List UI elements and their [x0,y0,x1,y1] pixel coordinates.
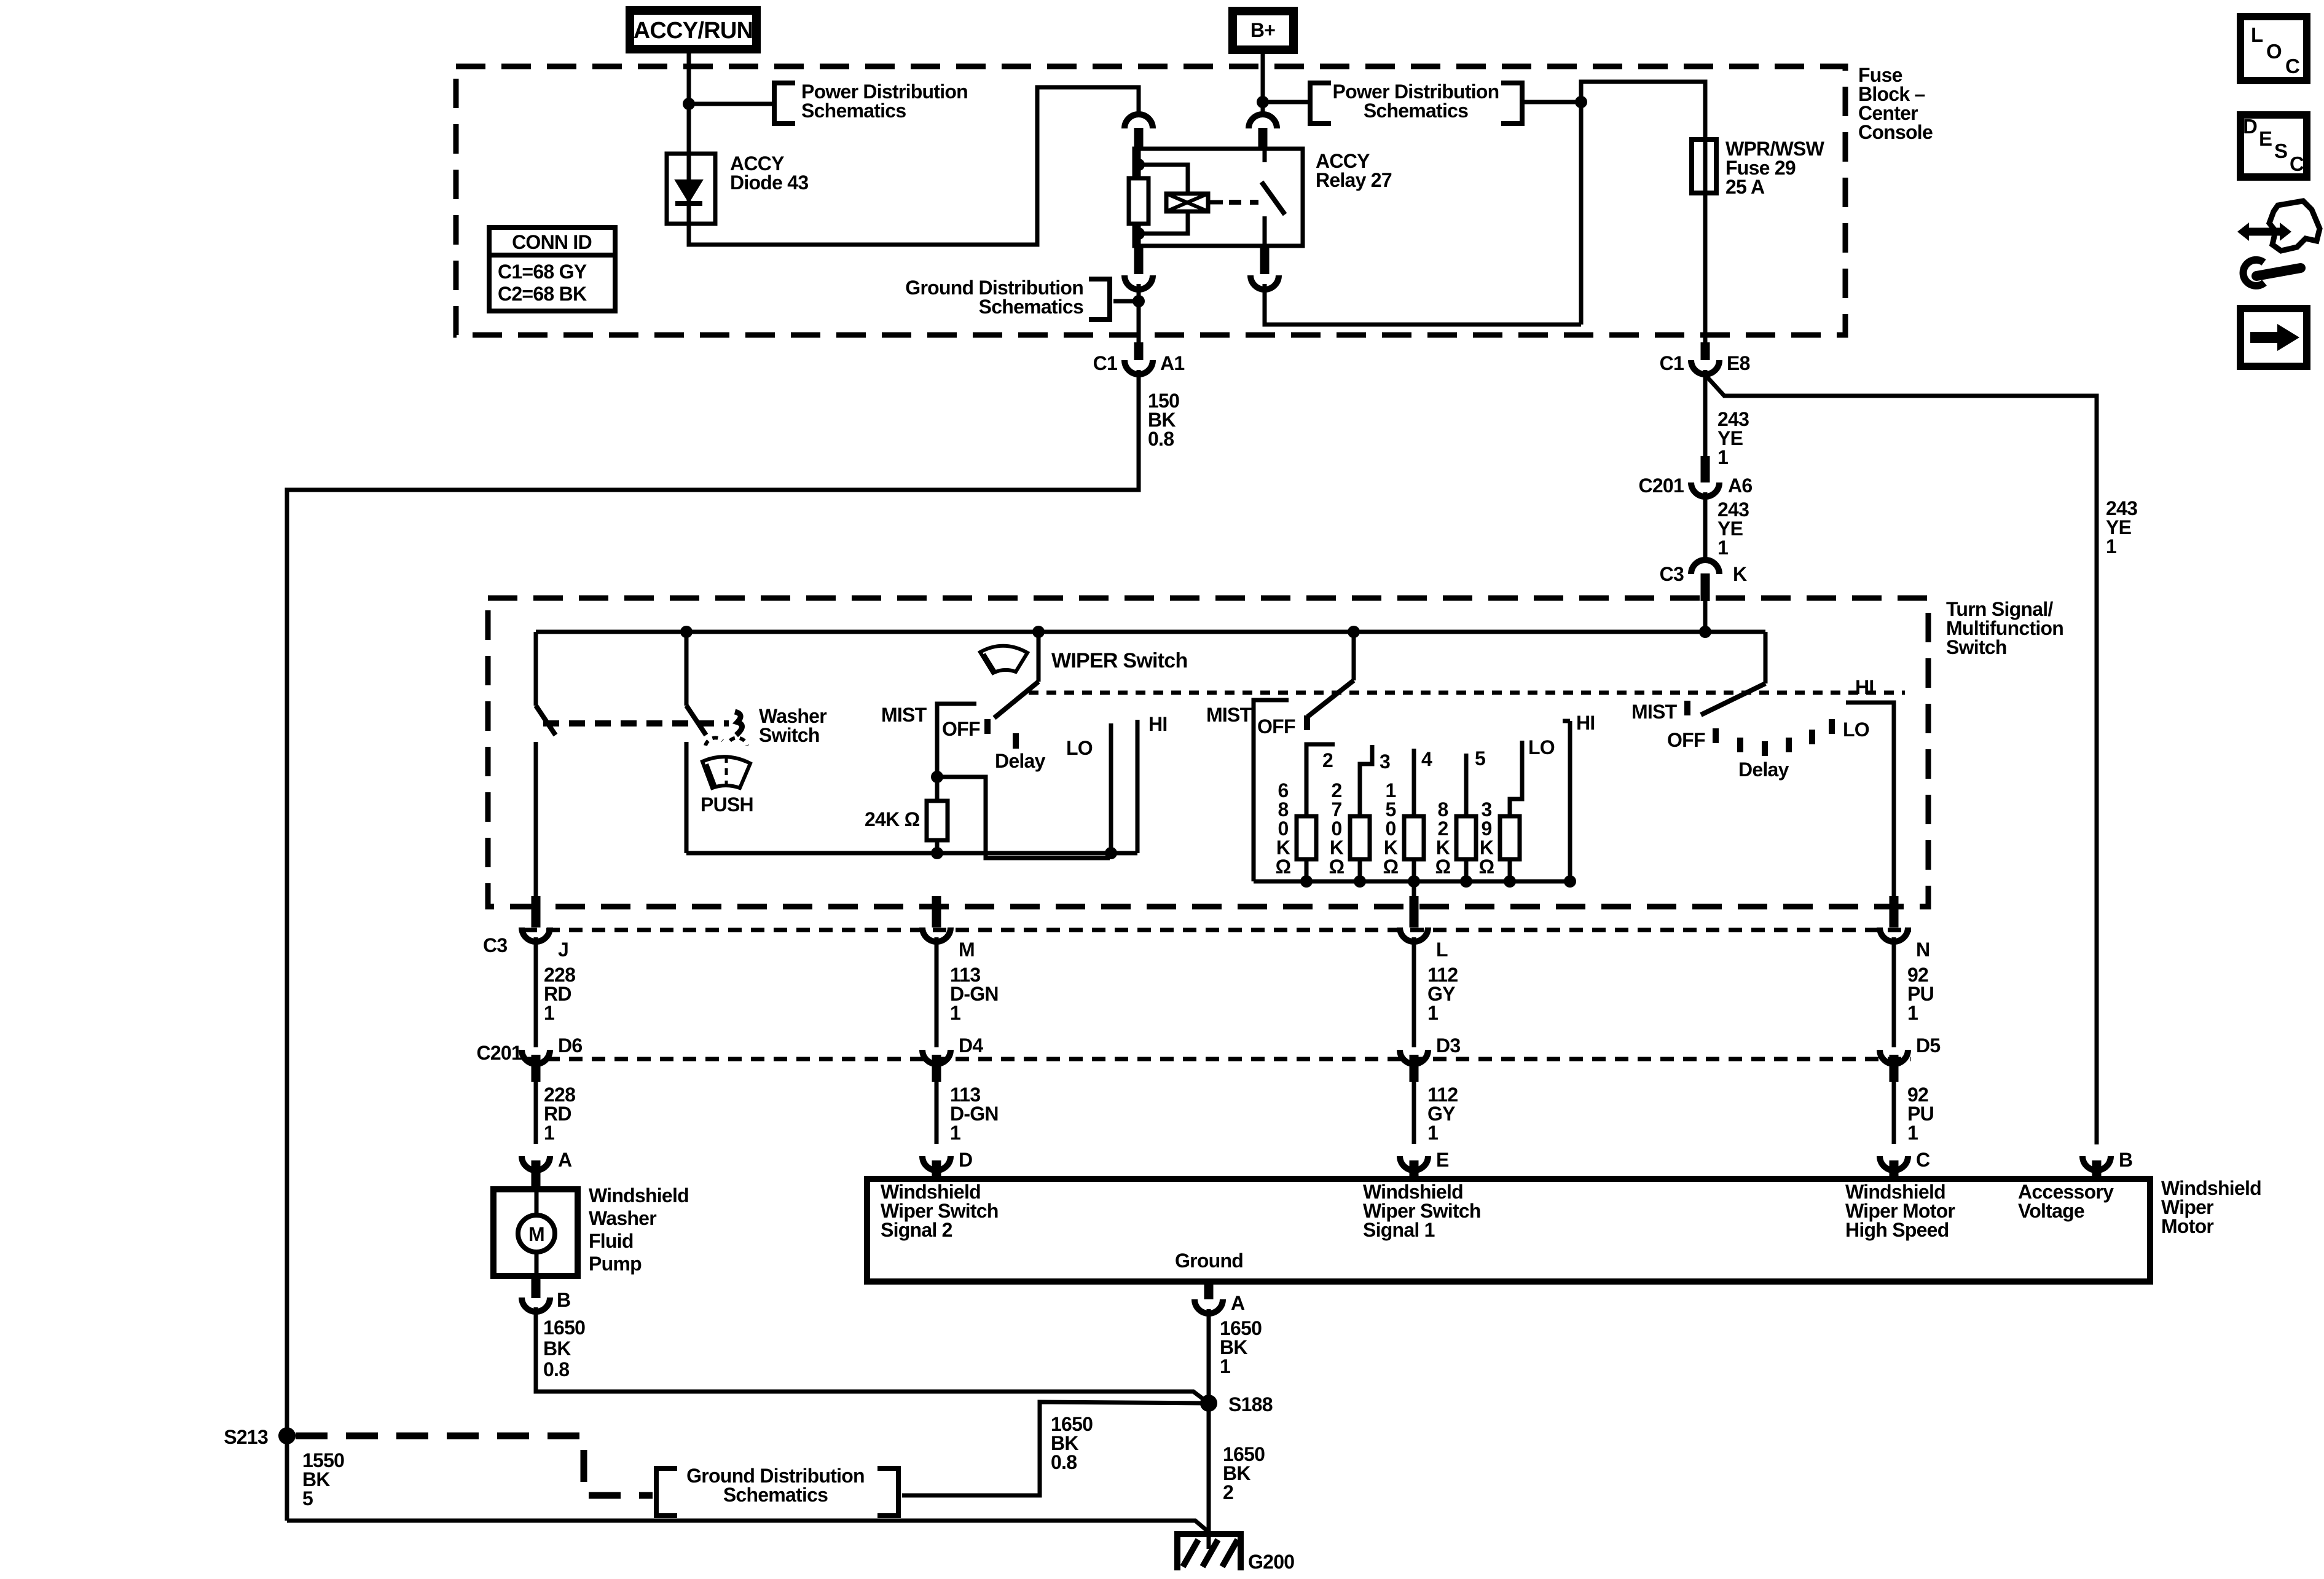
pin stub C201 D5 [1890,1055,1899,1082]
wire D3 down to device [1412,1082,1416,1144]
fuse block dashed outline [456,66,1845,335]
label Windshield Washer Fluid Pump [589,1184,689,1275]
node rail HI splice [1564,875,1576,888]
svg-text:E: E [2259,127,2272,150]
connector C3 N [1880,927,1908,942]
reference bracket Power Distribution left [774,83,795,124]
connector wiper motor ground A [1195,1299,1223,1313]
wire label 243 YE 1 right branch [2106,497,2137,557]
switch washer pole 1 [536,632,555,896]
wire fuse riser [1581,82,1705,325]
svg-text:0.8: 0.8 [543,1358,569,1380]
svg-text:D4: D4 [959,1034,983,1057]
svg-text:1: 1 [1907,1002,1918,1024]
wire to Ground Distribution reference [1113,299,1139,304]
pin stub C3 J [532,896,541,927]
svg-text:1: 1 [950,1002,960,1024]
svg-text:1: 1 [1427,1122,1438,1144]
svg-text:Fluid: Fluid [589,1230,634,1252]
switch wiper A lever [994,632,1038,718]
wire label 113 D-GN 1 lower [950,1084,999,1144]
connector washer pump B [522,1297,550,1312]
svg-text:ACCY/RUN: ACCY/RUN [634,18,753,44]
wire D4 down to device [935,1082,939,1144]
svg-text:1: 1 [544,1002,554,1024]
icon vehicle wrench [2237,201,2320,286]
motor windshield washer fluid pump [493,1186,578,1279]
connector wiper motor B [2083,1156,2111,1170]
pin stub wiper motor ground A [1204,1285,1214,1299]
pin stub relay coil bottom [1134,246,1144,274]
contact OFF switch A [984,719,991,734]
node splice on ACCY/RUN feed [683,98,695,110]
svg-text:5: 5 [1475,747,1485,770]
svg-text:M: M [528,1223,544,1245]
pin stub C1 E8 [1701,342,1710,360]
connector C1 E8 [1691,360,1719,374]
label Fuse Block Center Console [1858,64,1933,143]
node splice on B+ feed [1257,96,1269,108]
connector C3 K [1691,560,1719,574]
svg-text:CONN ID: CONN ID [512,231,592,253]
svg-text:B: B [2119,1149,2132,1171]
pin stub wiper motor [932,1160,941,1176]
wire bus to switch C pivot [1764,632,1768,683]
node rail splice x2213 [1354,875,1366,888]
svg-text:LO: LO [1528,736,1555,758]
connector row C201 dashed line [524,1057,1911,1061]
connector C201 A6 [1691,482,1719,497]
power symbol ACCY/RUN [630,10,756,49]
svg-text:HI: HI [1148,713,1168,735]
contact OFF switch B [1304,715,1310,730]
reference bracket Power Distribution B+ left [1310,83,1331,124]
svg-text:S188: S188 [1228,1393,1273,1416]
wire fuse to C1 E8 [1703,193,1708,342]
pin stub wiper motor [1410,1160,1419,1176]
connector C201 D5 [1880,1050,1908,1064]
pin stub C1 A1 [1134,342,1144,360]
wire label 1650 BK 0.8 branch [1051,1413,1093,1473]
connector C3 J [522,927,550,942]
wire pump B to S188 [536,1307,1209,1403]
pin stub relay contact top [1258,128,1268,149]
label Turn Signal Multifunction Switch [1946,598,2063,658]
svg-text:Relay 27: Relay 27 [1316,169,1392,191]
switch wiper B lever [1308,632,1354,717]
svg-text:C201: C201 [477,1042,522,1064]
svg-text:A: A [558,1149,572,1171]
svg-text:Voltage: Voltage [2018,1200,2084,1222]
svg-text:Ω: Ω [1383,856,1399,878]
svg-text:D3: D3 [1436,1034,1460,1057]
switch wiper C lever [1701,683,1765,715]
wire 243 YE 1 branch to wiper motor B [1705,375,2097,1144]
table CONN ID [489,227,615,311]
svg-text:C: C [1916,1149,1930,1171]
node rail splice x2126 [1300,875,1313,888]
wire label 1650 BK 1 [1220,1317,1262,1377]
pin stub C3 N [1890,896,1899,927]
svg-text:S: S [2274,140,2287,162]
contact LO switch B [1510,741,1522,816]
svg-text:4: 4 [1421,748,1432,770]
wire 150 BK 0.8 run to S213 [287,370,1139,1521]
node bus washer branch [680,626,693,638]
pin stub relay contact bottom [1260,246,1270,274]
node bus wiper switch B branch [1348,626,1360,638]
label Washer Switch [759,705,826,746]
connector device pin E [1400,1156,1428,1170]
svg-text:C2=68 BK: C2=68 BK [498,283,587,305]
icon forward arrow box [2240,309,2307,366]
svg-text:D: D [959,1149,972,1171]
contact MIST switch C [1684,701,1690,715]
wire switch A bottom rail [686,851,1137,856]
wire B+ feed down to relay contact [1261,54,1265,112]
connector relay coil pin bottom [1125,275,1153,289]
svg-text:D: D [2243,115,2257,138]
icon DESC box [2240,115,2307,177]
wire K into multifunction switch [1703,601,1708,632]
svg-text:Schematics: Schematics [723,1484,828,1506]
svg-text:Schematics: Schematics [801,100,906,122]
node bus K feed [1699,626,1711,638]
contact OFF switch C [1713,728,1719,743]
contact MIST switch A with 24K resistor [927,704,976,853]
contact HI switch C [1846,703,1894,896]
svg-text:High Speed: High Speed [1845,1219,1949,1241]
connector relay contact pin top [1249,114,1277,128]
contact HI switch B [1563,721,1570,881]
reference bracket ground distribution right [877,1468,898,1516]
wire L between rows [1412,937,1416,1047]
svg-text:B+: B+ [1250,19,1275,41]
node splice on fuse riser [1575,96,1587,108]
label Windshield Wiper Switch Signal 2 [881,1181,999,1241]
svg-text:HI: HI [1576,712,1595,734]
node LO rail splice [1105,847,1117,859]
wire label 112 GY 1 upper [1427,964,1458,1024]
wire relay output to fuse riser [1265,284,1581,325]
label Windshield Wiper Switch Signal 1 [1363,1181,1481,1241]
wire N between rows [1892,937,1896,1047]
pin stub C3 K [1701,573,1710,601]
wire to Power Distribution reference [689,102,772,106]
svg-text:A6: A6 [1728,474,1752,497]
windshield wiper motor box [867,1179,2150,1282]
svg-text:LO: LO [1843,719,1869,741]
pin stub wiper motor [1890,1160,1899,1176]
resistor R3 value 150KΩ [1383,779,1424,881]
svg-text:1: 1 [1427,1002,1438,1024]
svg-text:2: 2 [1223,1481,1233,1503]
svg-text:Signal 2: Signal 2 [881,1219,952,1241]
node rail splice x2301 [1408,875,1420,888]
wire S188 to ground distribution reference [902,1402,1209,1495]
svg-text:Ω: Ω [1329,856,1345,878]
reference bracket Power Distribution B+ right [1501,83,1522,124]
svg-text:3: 3 [1380,750,1390,773]
svg-text:25 A: 25 A [1725,176,1765,198]
svg-text:1: 1 [2106,535,2116,557]
svg-text:1650: 1650 [543,1317,585,1339]
washer switch linkage hook [735,712,742,735]
wire D6 down to device [534,1082,538,1144]
connector C1 A1 [1125,360,1153,374]
svg-text:Ω: Ω [1479,856,1494,878]
node relay coil top [1133,159,1145,171]
svg-text:OFF: OFF [942,718,980,740]
svg-text:K: K [1733,563,1747,585]
splice S213 [278,1427,296,1444]
node rail splice x2386 [1460,875,1472,888]
svg-text:B: B [557,1289,570,1311]
svg-text:C1=68 GY: C1=68 GY [498,261,587,283]
wire D5 down to device [1892,1082,1896,1144]
label Windshield Wiper Motor [2161,1177,2261,1237]
svg-text:Ω: Ω [1276,856,1291,878]
diode ACCY Diode 43 [667,154,715,224]
svg-text:Signal 1: Signal 1 [1363,1219,1435,1241]
connector device pin D [922,1156,951,1170]
wire bracket to fuse riser [1522,100,1581,104]
wire label 1650 BK 0.8 pump [543,1317,585,1380]
node 24K bottom splice [931,847,943,859]
splice S188 [1200,1395,1217,1412]
contact LO switch A [1109,723,1113,853]
pin stub washer pump B [532,1279,541,1298]
svg-text:MIST: MIST [1631,701,1678,723]
svg-text:Windshield: Windshield [589,1184,689,1207]
svg-text:1: 1 [544,1122,554,1144]
wire diode to relay coil pin [689,87,1139,245]
svg-text:5: 5 [302,1487,313,1510]
svg-text:Pump: Pump [589,1253,642,1275]
svg-text:1: 1 [1717,446,1728,468]
wire label 92 PU 1 upper [1907,964,1934,1024]
connector C3 L [1400,927,1428,942]
svg-text:D6: D6 [558,1034,582,1057]
washer switch linkage dashes [543,720,729,726]
label Ground Distribution Schematics bottom [686,1465,865,1506]
wire rail down to C3 L [1412,881,1416,896]
icon LOC box [2240,17,2307,81]
svg-text:Switch: Switch [759,724,820,746]
pin stub C201 D4 [932,1055,941,1082]
label ACCY Relay 27 [1316,150,1392,191]
label Windshield Wiper Motor High Speed [1845,1181,1955,1241]
pin stub C201 D3 [1410,1055,1419,1082]
icon washer push symbol [702,738,750,788]
svg-text:BK: BK [543,1337,571,1360]
contact 4 [1412,749,1416,816]
label Ground Distribution Schematics top [905,277,1083,318]
contact Delay arc switch C [1740,719,1832,756]
node relay coil bottom [1133,227,1145,240]
svg-text:OFF: OFF [1257,715,1295,738]
relay coil resistor branch [1129,149,1148,246]
pin stub relay coil top [1134,128,1144,149]
resistor R2 value 270KΩ [1329,779,1370,881]
wire switch feed bus [536,630,1765,634]
svg-text:L: L [2251,23,2263,46]
wire switch B bottom rail [1254,880,1570,884]
wiper switch inner dotted boundary [1029,691,1905,695]
svg-text:Ground: Ground [1175,1250,1243,1272]
wire label 1550 BK 5 [302,1449,344,1510]
relay coil winding symbol [1139,165,1258,234]
pin stub wiper motor B [2092,1160,2102,1176]
svg-text:Motor: Motor [2161,1215,2213,1237]
svg-text:PUSH: PUSH [701,793,753,816]
svg-text:1: 1 [1220,1355,1230,1377]
label Power Distribution Schematics left [801,81,968,122]
connector relay contact pin bottom [1250,275,1279,289]
svg-text:2: 2 [1322,749,1333,771]
label WPR/WSW Fuse 29 25 A [1725,138,1825,198]
resistor R4 value 82KΩ [1435,798,1476,881]
node bus wiper switch A branch [1032,626,1045,638]
node rail splice x2457 [1504,875,1516,888]
svg-text:MIST: MIST [1206,704,1252,726]
wire ACCY/RUN feed down to diode [687,52,691,154]
connector row C3 dashed line [524,928,1911,932]
relay ACCY Relay 27 box [1134,149,1303,246]
label Power Distribution Schematics right [1333,81,1499,122]
ground G200 [1174,1534,1244,1570]
contact 2 [1306,744,1335,816]
svg-text:Console: Console [1858,121,1933,143]
svg-text:24K Ω: 24K Ω [865,808,920,830]
connector relay coil pin top [1125,114,1153,128]
svg-text:Switch: Switch [1946,636,2007,658]
turn signal multifunction switch dashed outline [488,598,1928,907]
svg-text:C3: C3 [483,934,507,956]
svg-text:Diode 43: Diode 43 [730,171,808,194]
svg-text:A1: A1 [1160,352,1184,374]
wire S213 run to G200 [287,1521,1211,1534]
power symbol B+ [1233,11,1294,50]
svg-text:N: N [1916,939,1929,961]
svg-text:A: A [1231,1292,1245,1314]
wire relay coil to ground ref / C1 A1 [1137,284,1141,342]
contact MIST switch B [1254,700,1289,881]
svg-text:Delay: Delay [1738,758,1789,781]
fuse WPR/WSW Fuse 29 25A [1692,140,1716,193]
connector C201 D6 [522,1050,550,1064]
svg-text:D5: D5 [1916,1034,1940,1057]
svg-text:M: M [959,939,975,961]
wire label 112 GY 1 lower [1427,1084,1458,1144]
svg-text:LO: LO [1066,737,1093,759]
wire label 243 YE 1 upper [1717,408,1749,468]
switch washer pole 2 [686,632,706,853]
svg-text:J: J [558,939,568,961]
svg-text:Washer: Washer [589,1207,656,1229]
resistor R1 value 680KΩ [1276,779,1316,881]
svg-text:OFF: OFF [1667,729,1705,751]
wire A6 down to C3 K [1703,492,1708,559]
svg-text:Schematics: Schematics [1364,100,1468,122]
svg-text:E: E [1436,1149,1449,1171]
svg-text:1: 1 [1907,1122,1918,1144]
svg-text:C3: C3 [1660,563,1684,585]
wire dashed S213 to ground distribution reference [296,1436,653,1495]
connector C201 D3 [1400,1050,1428,1064]
svg-text:WIPER Switch: WIPER Switch [1051,649,1187,672]
node ground reference splice [1133,295,1145,307]
svg-text:1: 1 [950,1122,960,1144]
wire ground A to G200 [1207,1309,1211,1549]
svg-text:0.8: 0.8 [1051,1451,1077,1473]
contact Delay switch A [1013,733,1019,749]
svg-text:C201: C201 [1639,474,1684,497]
wire label 228 RD 1 upper [544,964,575,1024]
wire label 92 PU 1 lower [1907,1084,1934,1144]
svg-text:E8: E8 [1727,352,1750,374]
pin stub C3 L [1410,896,1419,927]
connector device pin A [522,1156,550,1170]
svg-text:O: O [2266,40,2282,63]
wire M between rows [935,937,939,1047]
wire 24K splice loop [937,777,1110,858]
pin stub washer pump A [532,1160,541,1186]
svg-text:C1: C1 [1660,352,1684,374]
icon wiper blade symbol [980,646,1027,673]
wire label 1650 BK 2 [1223,1443,1265,1503]
svg-text:Ω: Ω [1435,856,1451,878]
wire label 228 RD 1 lower [544,1084,575,1144]
reference bracket ground distribution left [656,1468,677,1516]
svg-text:G200: G200 [1248,1551,1294,1573]
relay contact switch [1262,149,1285,246]
svg-text:HI: HI [1855,676,1874,698]
connector C201 D4 [922,1050,951,1064]
label ACCY Diode 43 [730,152,808,194]
wire E8 down to C201 A6 [1703,370,1708,456]
label Accessory Voltage [2018,1181,2114,1222]
node 24K top splice [931,771,943,783]
contact HI switch A [1136,720,1140,853]
wire label 113 D-GN 1 upper [950,964,999,1024]
svg-text:C1: C1 [1093,352,1117,374]
svg-text:0.8: 0.8 [1148,428,1174,450]
wire to Power Distribution reference right [1263,100,1308,104]
wire J between rows [534,937,538,1047]
svg-text:C: C [2285,55,2299,77]
svg-text:Delay: Delay [995,750,1046,772]
svg-text:Schematics: Schematics [979,296,1083,318]
connector C3 M [922,927,951,942]
contact 3 [1360,745,1372,816]
resistor R5 value 39KΩ [1479,798,1520,881]
svg-text:L: L [1436,939,1448,961]
pin stub C201 A6 [1701,456,1710,482]
contact 5 [1464,754,1469,816]
svg-text:S213: S213 [224,1426,268,1448]
svg-text:C: C [2290,152,2304,175]
pin stub C3 M [932,896,941,927]
connector device pin C [1880,1156,1908,1170]
wire label 150 BK 0.8 [1148,390,1179,450]
svg-text:1: 1 [1717,537,1728,559]
wire label 243 YE 1 lower [1717,498,1749,559]
pin stub C201 D6 [532,1055,541,1082]
reference bracket Ground Distribution [1089,279,1110,320]
svg-text:MIST: MIST [881,704,927,726]
